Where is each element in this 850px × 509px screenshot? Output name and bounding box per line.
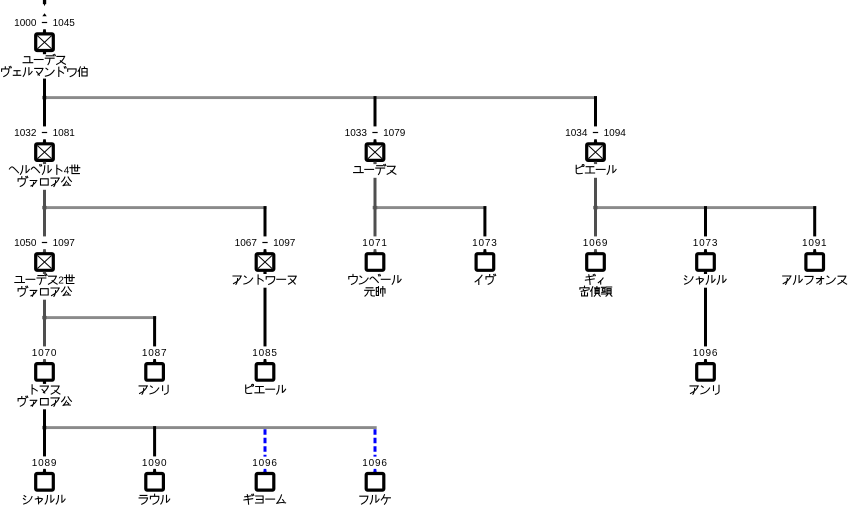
- wire: sibling rail gen1 (under Eudes of Vermandois): [43, 96, 597, 99]
- wire: clipped line to off-screen parent (top): [43, 0, 46, 6]
- junction dot Thomas: [42, 426, 47, 429]
- node box: Foulques: [366, 469, 384, 490]
- title Count of Vermandois: [2, 66, 88, 76]
- junction dot Pierre 1034: [593, 206, 598, 209]
- svg-text:1032: 1032: [14, 128, 37, 139]
- wire: Eudes Vermandois down to gen1 rail / child 1032: [43, 79, 46, 127]
- svg-text:2: 2: [58, 275, 64, 286]
- svg-text:1033: 1033: [345, 128, 368, 139]
- svg-text:1096: 1096: [252, 458, 277, 469]
- wire: gen1 rail down to 1033: [374, 96, 377, 126]
- node box: Charles 1089: [36, 469, 54, 490]
- name Thomas: [32, 385, 60, 394]
- junction dot Eudes II: [42, 316, 47, 319]
- node box: Henri 1096: [697, 359, 715, 380]
- name Charles 1089: [23, 495, 65, 504]
- name Humbert: [349, 274, 401, 284]
- name Antoine: [233, 275, 296, 285]
- svg-text:1073: 1073: [472, 238, 497, 249]
- svg-text:1069: 1069: [583, 238, 608, 249]
- wire: sibling rail under Eudes 1033: [374, 206, 487, 209]
- wire: sibling rail under Herbert IV: [43, 206, 267, 209]
- arrowhead above top year label: [42, 13, 46, 16]
- svg-text:1085: 1085: [252, 348, 277, 359]
- svg-text:1079: 1079: [383, 128, 406, 139]
- junction dot Eudes 1033: [373, 206, 378, 209]
- title Duke of Valois (Thomas): [18, 396, 71, 406]
- name Guillaume: [244, 494, 286, 504]
- name Herbert IV: [9, 165, 79, 177]
- wire: sibling rail under Eudes II: [43, 316, 156, 319]
- node box: Herbert IV (deceased): [36, 139, 54, 160]
- title Duke of Valois (Eudes II): [18, 286, 71, 296]
- svg-text:1096: 1096: [362, 458, 387, 469]
- name Henri 1087: [139, 385, 168, 394]
- svg-text:1097: 1097: [53, 238, 76, 249]
- svg-text:1073: 1073: [693, 238, 718, 249]
- node box: Pierre 1085: [256, 359, 274, 380]
- node box: Humbert: [366, 249, 384, 270]
- node box: Thomas: [36, 359, 54, 380]
- svg-text:1070: 1070: [32, 348, 57, 359]
- years Pierre 1034: [565, 128, 626, 139]
- name Eudes (top): [23, 54, 65, 64]
- svg-text:1071: 1071: [362, 238, 387, 249]
- name Guy: [585, 274, 603, 284]
- junction dot Herbert IV: [42, 206, 47, 209]
- name Alphonse: [783, 276, 847, 285]
- svg-text:1087: 1087: [142, 348, 167, 359]
- title Spymaster: [580, 286, 612, 296]
- wire: rail down to 1067: [264, 206, 267, 236]
- wire: sibling rail under Thomas: [43, 426, 377, 429]
- node box: Henri 1087: [146, 359, 164, 380]
- svg-text:1045: 1045: [53, 18, 76, 29]
- svg-text:1034: 1034: [565, 128, 588, 139]
- wire: Thomas down to 1089: [43, 409, 46, 456]
- svg-text:1090: 1090: [142, 458, 167, 469]
- svg-text:1089: 1089: [32, 458, 57, 469]
- wire: gen1 rail down to 1034: [594, 96, 597, 126]
- name Henri 1096: [690, 385, 719, 394]
- wire: blue dashed link to 1096 Guillaume: [264, 429, 267, 456]
- years Antoine: [235, 238, 296, 249]
- node box: Guy: [587, 249, 605, 270]
- node box: Raoul: [146, 469, 164, 490]
- svg-text:1097: 1097: [273, 238, 296, 249]
- name Charles 1073: [684, 276, 726, 285]
- svg-text:1096: 1096: [693, 348, 718, 359]
- node box: Yves: [476, 249, 494, 270]
- name Eudes II: [15, 274, 74, 286]
- wire: rail down to 1073 Yves: [483, 206, 486, 236]
- name Eudes 1033: [354, 164, 396, 174]
- svg-text:4: 4: [64, 165, 70, 176]
- svg-text:1094: 1094: [604, 128, 627, 139]
- wire: rail down to 1087: [153, 316, 156, 346]
- years Herbert IV: [14, 128, 75, 139]
- node box: Eudes II (deceased): [36, 249, 54, 270]
- node box: Eudes 1033 (deceased): [366, 139, 384, 160]
- name Raoul: [139, 494, 170, 504]
- wire: Antoine down to 1085: [264, 288, 267, 347]
- svg-text:1091: 1091: [802, 238, 827, 249]
- title Marshal: [365, 287, 385, 297]
- wire: Pierre 1034 down to 1069 (gray): [594, 178, 597, 237]
- wire: rail down to 1090: [153, 426, 156, 456]
- name Foulques: [360, 495, 391, 505]
- node box: Charles 1073: [697, 249, 715, 270]
- years Eudes II: [14, 238, 75, 249]
- svg-text:1050: 1050: [14, 238, 37, 249]
- node box: Guillaume: [256, 469, 274, 490]
- svg-text:1081: 1081: [53, 128, 76, 139]
- title Duke of Valois: [18, 176, 71, 186]
- node box: Eudes of Vermandois (deceased): [36, 29, 54, 50]
- wire: rail down to 1073 Charles: [704, 206, 707, 236]
- node box: Antoine (deceased): [256, 249, 274, 270]
- wire: rail down to 1091 Alphonse: [813, 206, 816, 236]
- years Eudes 1033: [345, 128, 406, 139]
- wire: blue dashed link to 1096 Foulques: [374, 429, 377, 456]
- wire: Herbert IV down to 1050 (gray): [43, 190, 46, 237]
- node box: Pierre 1034 (deceased): [587, 139, 605, 160]
- wire: sibling rail under Pierre 1034: [594, 206, 816, 209]
- wire: Eudes 1033 down to 1071 (gray): [374, 178, 377, 237]
- svg-text:1067: 1067: [235, 238, 258, 249]
- years Eudes of Vermandois: [14, 18, 75, 29]
- name Pierre 1034: [576, 165, 616, 175]
- name Pierre 1085: [246, 384, 286, 394]
- wire: Charles down to 1096 Henri: [704, 288, 707, 347]
- svg-text:1000: 1000: [14, 18, 37, 29]
- name Yves: [475, 274, 496, 284]
- wire: Eudes II down to 1070 (gray): [43, 300, 46, 347]
- junction dot gen1: [42, 96, 47, 99]
- node box: Alphonse: [806, 249, 824, 270]
